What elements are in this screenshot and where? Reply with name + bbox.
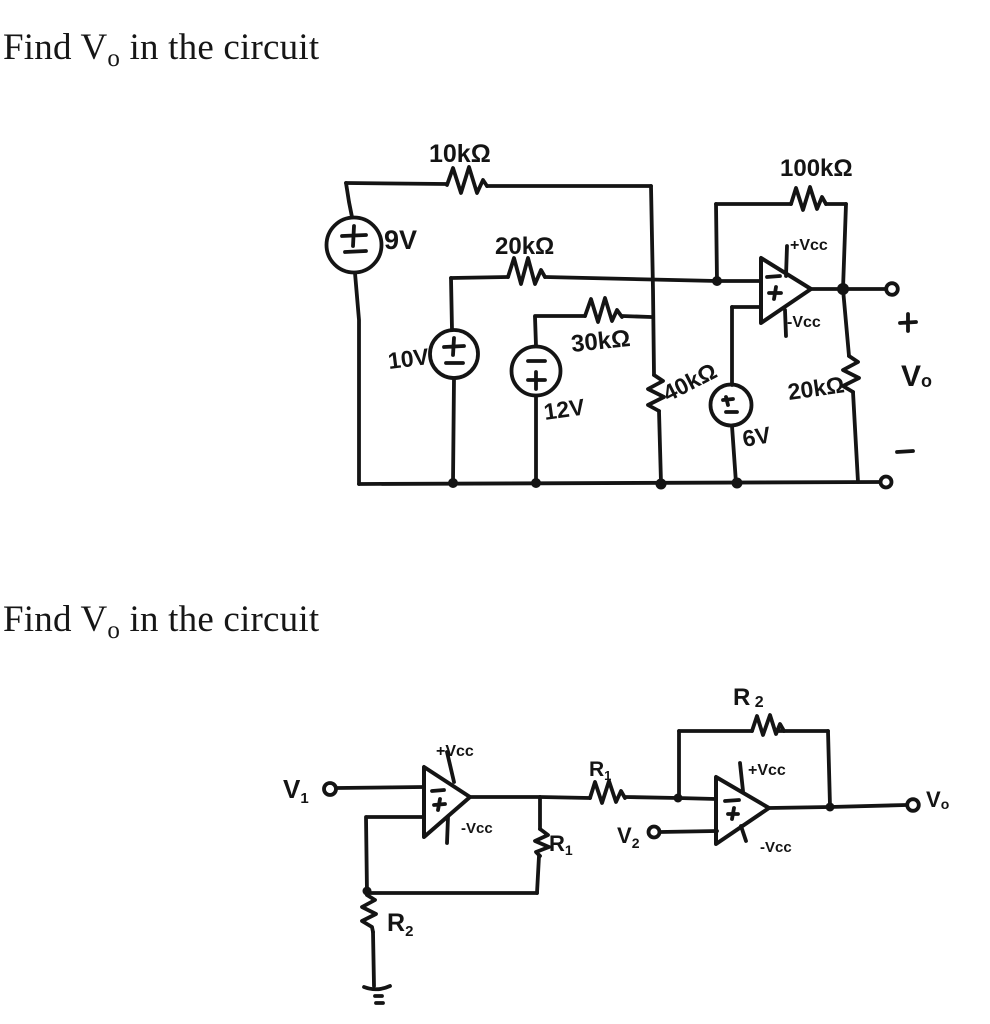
op-amp U2 minus sign [432,790,444,791]
svg-text:+Vcc: +Vcc [436,743,474,760]
op-amp U1 plus sign [769,287,781,299]
wire feedback left vertical [716,204,717,281]
wire top-left from 9V to 10k resistor [346,183,447,184]
wire from top wire down to 9V [346,183,352,217]
svg-text:+Vcc: +Vcc [790,237,828,254]
op-amp U3 triangle [716,777,769,844]
op-amp U1 -Vcc pin [785,310,786,336]
wire inverting input U3 [678,798,716,799]
svg-text:20kΩ: 20kΩ [495,233,554,260]
ground symbol [364,986,390,1003]
node junction dot inverting U3 [674,794,683,803]
svg-text:12V: 12V [542,393,587,425]
svg-text:Find Vo in the circuit: Find Vo in the circuit [3,27,320,72]
voltage source 10V [430,330,478,378]
voltage source 6V [711,385,752,426]
plus marker output [900,314,916,331]
op-amp U2 -Vcc pin [447,817,448,843]
terminal V2 [649,827,660,838]
wire from 12V to 30k resistor [535,314,585,318]
wire noninverting input [732,305,761,309]
svg-text:6V: 6V [740,421,773,452]
wire feedback2 right vertical [828,731,830,806]
wire right vertical to 20k load [843,289,849,356]
wire from noninverting input down to 6V [730,307,734,385]
op-amp U1 minus sign [767,276,780,277]
wire feedback bottom [367,891,537,895]
wire feedback right vertical [537,856,539,893]
wire V1 to op-amp [337,787,424,788]
terminal Vo [907,799,919,811]
wire from 20k node down to 10V [451,278,452,330]
svg-text:Find Vo in the circuit: Find Vo in the circuit [3,599,320,644]
resistor R1 series [590,781,625,803]
wire from 20k to inverting input node [545,277,717,281]
wire feedback2 top left [679,729,752,733]
svg-text:-Vcc: -Vcc [461,820,493,837]
wire feedback right vertical [843,204,846,289]
wire right vertical node drop [651,186,654,375]
svg-text:V1: V1 [283,774,309,807]
svg-text:100kΩ: 100kΩ [780,155,853,182]
wire output to Vo terminal [830,805,906,807]
resistor R 20k [508,258,545,284]
resistor R 10k [447,167,487,193]
wire feedback top left segment [716,202,791,206]
wire from 40k to bottom rail [659,411,661,483]
wire feedback2 left vertical [677,731,681,798]
op-amp U3 minus sign [725,800,739,801]
wire noninverting input U2 [367,815,424,819]
wire R1 top to output wire [538,797,542,829]
wire from 9V down left side [355,273,359,484]
op-amp U1 +Vcc pin [786,246,787,276]
svg-text:10kΩ: 10kΩ [429,140,491,168]
wire feedback top right segment [826,202,846,206]
wire from 30k to right vertical [622,316,651,317]
svg-text:9V: 9V [384,225,417,255]
node junction dot output [837,283,849,295]
title text 2 [3,599,320,644]
wire op-amp U3 output [769,807,830,808]
op-amp U3 plus sign [728,808,738,819]
wire from 20k load to bottom rail [853,392,858,482]
wire feedback down left [366,817,367,893]
svg-text:Vo: Vo [926,787,949,812]
op-amp U2 +Vcc pin [447,752,454,782]
wire R1 series to node [625,797,678,798]
voltage source 9V [327,218,382,273]
voltage source 12V [512,347,561,396]
node junction dot feedback [363,887,372,896]
resistor R2 feedback [752,715,784,735]
resistor R1 vertical [535,829,549,856]
terminal bottom right [881,477,892,488]
node junction dot 40k [656,479,667,490]
node junction dot inverting input [712,276,722,286]
resistor R 20k load vertical [843,356,859,392]
node junction dot 12V [531,478,541,488]
wire from 12V to bottom rail [534,396,538,483]
minus marker output [897,451,913,452]
op-amp U1 triangle [761,258,811,323]
resistor R 100k [791,187,826,210]
wire R2 to ground [373,932,374,986]
wire output to R1 series [540,797,590,798]
terminal output top [886,283,898,295]
resistor R 40k vertical [648,375,664,411]
svg-text:Vo: Vo [901,360,932,393]
wire op-amp output [811,287,885,291]
svg-text:20kΩ: 20kΩ [786,371,846,405]
wire bottom rail [359,482,880,484]
svg-text:-Vcc: -Vcc [760,839,792,856]
wire inverting input [717,279,761,283]
op-amp U2 plus sign [434,799,445,810]
node junction dot 6V [732,478,743,489]
svg-text:R2: R2 [387,909,413,940]
wire feedback2 top right [779,729,828,733]
wire from 12V up to 30k [535,317,536,346]
resistor R 30k [585,298,622,322]
node junction dot 10V [448,478,458,488]
svg-text:R1: R1 [589,758,611,783]
svg-text:30kΩ: 30kΩ [570,325,632,358]
node junction dot U3 output [826,803,835,812]
svg-text:10V: 10V [386,343,430,374]
wire from 10V to bottom rail [453,378,454,483]
svg-text:R1: R1 [549,831,573,858]
svg-text:-Vcc: -Vcc [787,314,821,331]
op-amp U2 triangle [424,767,470,837]
resistor R2 vertical to ground [362,895,376,932]
svg-text:V2: V2 [617,823,640,851]
svg-text:+Vcc: +Vcc [748,762,786,779]
title text 1 [3,27,320,72]
wire from 6V to bottom rail [732,426,736,483]
op-amp U3 -Vcc pin [741,826,746,841]
wire from 10V branch to 20k resistor [451,277,508,278]
wire noninverting input U3 [660,831,717,832]
wire top-right from 10k to right vertical [487,184,651,188]
svg-text:R 2: R 2 [733,684,764,711]
wire op-amp U2 output [470,795,540,799]
terminal V1 input [324,783,336,795]
op-amp U3 +Vcc pin [740,763,743,791]
